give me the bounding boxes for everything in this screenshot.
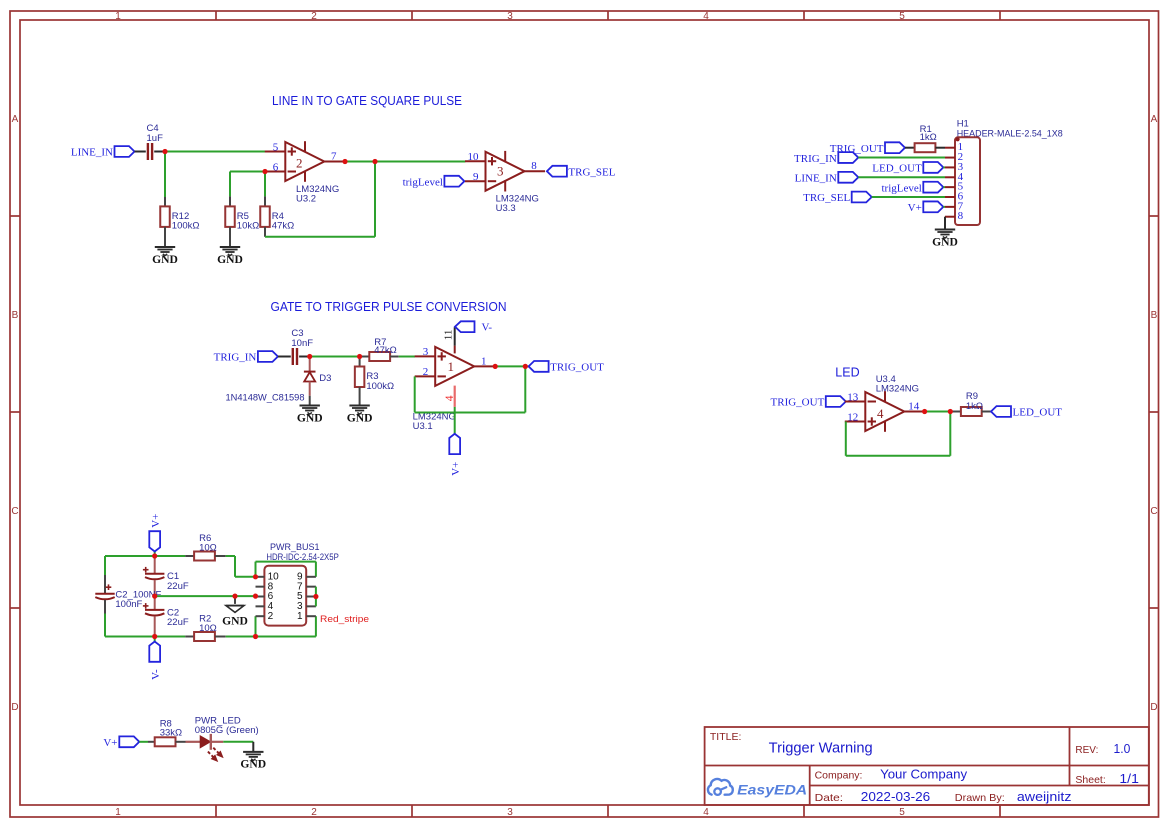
svg-text:V-: V- xyxy=(482,321,493,333)
svg-text:12: 12 xyxy=(847,411,858,423)
svg-text:V+: V+ xyxy=(450,462,462,476)
svg-text:D: D xyxy=(1150,702,1157,713)
svg-text:5: 5 xyxy=(899,11,905,22)
svg-text:2: 2 xyxy=(423,366,429,378)
svg-text:5: 5 xyxy=(899,807,905,818)
svg-text:1: 1 xyxy=(115,11,121,22)
svg-text:EasyEDA: EasyEDA xyxy=(737,781,807,797)
svg-text:4: 4 xyxy=(877,406,884,421)
svg-text:GATE TO TRIGGER PULSE CONVERSI: GATE TO TRIGGER PULSE CONVERSION xyxy=(271,300,507,314)
svg-text:TRIG_OUT: TRIG_OUT xyxy=(771,397,825,409)
svg-text:Company:: Company: xyxy=(815,769,863,781)
svg-text:D: D xyxy=(11,702,18,713)
svg-text:2: 2 xyxy=(311,11,317,22)
svg-text:4: 4 xyxy=(703,807,709,818)
svg-text:1: 1 xyxy=(448,359,455,374)
svg-text:10: 10 xyxy=(468,151,480,163)
svg-text:GND: GND xyxy=(217,253,243,266)
svg-text:33kΩ: 33kΩ xyxy=(160,728,182,739)
svg-text:1uF: 1uF xyxy=(147,133,164,144)
svg-text:B: B xyxy=(1151,310,1158,321)
svg-text:B: B xyxy=(12,310,19,321)
svg-text:Red_stripe: Red_stripe xyxy=(320,614,369,625)
svg-text:LM324NG: LM324NG xyxy=(876,384,919,395)
svg-text:LINE_IN: LINE_IN xyxy=(71,147,113,159)
svg-text:9: 9 xyxy=(473,171,479,183)
svg-text:GND: GND xyxy=(932,235,958,248)
svg-text:47kΩ: 47kΩ xyxy=(272,221,294,232)
svg-text:Trigger Warning: Trigger Warning xyxy=(769,740,873,756)
svg-text:100kΩ: 100kΩ xyxy=(172,221,200,232)
svg-text:10Ω: 10Ω xyxy=(199,542,217,553)
svg-text:1/1: 1/1 xyxy=(1119,772,1139,786)
svg-text:Drawn By:: Drawn By: xyxy=(955,792,1005,804)
svg-text:aweijnitz: aweijnitz xyxy=(1017,790,1072,804)
svg-text:U3.1: U3.1 xyxy=(413,421,433,432)
svg-text:4: 4 xyxy=(703,11,709,22)
svg-text:13: 13 xyxy=(847,391,859,403)
svg-text:LINE_IN: LINE_IN xyxy=(795,172,837,184)
svg-text:10nF: 10nF xyxy=(291,338,313,349)
svg-text:Sheet:: Sheet: xyxy=(1075,774,1105,786)
svg-text:1: 1 xyxy=(297,611,303,622)
svg-text:LED: LED xyxy=(835,366,859,380)
svg-text:Date:: Date: xyxy=(815,792,844,804)
svg-text:GND: GND xyxy=(297,411,323,424)
svg-text:Your Company: Your Company xyxy=(880,767,968,781)
svg-text:C: C xyxy=(11,506,18,517)
svg-text:HDR-IDC-2.54-2X5P: HDR-IDC-2.54-2X5P xyxy=(266,552,338,563)
svg-text:1N4148W_C81598: 1N4148W_C81598 xyxy=(226,392,305,403)
svg-text:1: 1 xyxy=(481,355,487,367)
svg-text:2022-03-26: 2022-03-26 xyxy=(861,790,930,804)
svg-text:2: 2 xyxy=(311,807,317,818)
svg-text:V+: V+ xyxy=(103,737,117,749)
svg-text:LED_OUT: LED_OUT xyxy=(872,163,922,175)
svg-text:22uF: 22uF xyxy=(167,581,189,592)
svg-text:1kΩ: 1kΩ xyxy=(920,132,937,143)
svg-text:U3.3: U3.3 xyxy=(496,203,516,214)
svg-text:100nF: 100nF xyxy=(115,599,142,610)
svg-text:11: 11 xyxy=(443,330,455,341)
svg-text:3: 3 xyxy=(423,346,429,358)
svg-text:47kΩ: 47kΩ xyxy=(374,345,396,356)
svg-text:1.0: 1.0 xyxy=(1114,742,1131,756)
svg-text:22uF: 22uF xyxy=(167,617,189,628)
svg-text:4: 4 xyxy=(444,395,456,401)
svg-text:100kΩ: 100kΩ xyxy=(366,381,394,392)
svg-text:V+: V+ xyxy=(150,514,162,528)
svg-text:2: 2 xyxy=(296,156,303,171)
svg-text:A: A xyxy=(1151,114,1158,125)
svg-text:3: 3 xyxy=(507,807,513,818)
svg-text:LINE IN TO GATE SQUARE PULSE: LINE IN TO GATE SQUARE PULSE xyxy=(272,94,462,108)
svg-text:C: C xyxy=(1150,506,1157,517)
svg-text:TRIG_OUT: TRIG_OUT xyxy=(550,362,604,374)
svg-text:REV:: REV: xyxy=(1075,744,1098,756)
svg-text:7: 7 xyxy=(331,151,337,163)
svg-text:LED_OUT: LED_OUT xyxy=(1013,407,1063,419)
svg-text:TRG_SEL: TRG_SEL xyxy=(803,192,850,204)
svg-text:trigLevel: trigLevel xyxy=(881,182,921,194)
svg-text:10Ω: 10Ω xyxy=(199,623,217,634)
svg-text:0805G (Green): 0805G (Green) xyxy=(195,725,259,736)
svg-text:GND: GND xyxy=(240,758,266,771)
svg-text:TITLE:: TITLE: xyxy=(710,731,742,743)
svg-text:A: A xyxy=(12,114,19,125)
svg-text:14: 14 xyxy=(908,401,920,413)
svg-text:V+: V+ xyxy=(908,202,922,214)
svg-text:GND: GND xyxy=(222,615,248,628)
svg-text:1: 1 xyxy=(115,807,121,818)
svg-text:1kΩ: 1kΩ xyxy=(966,401,983,412)
svg-text:8: 8 xyxy=(958,210,964,222)
svg-text:GND: GND xyxy=(152,253,178,266)
svg-text:6: 6 xyxy=(273,161,279,173)
svg-text:U3.2: U3.2 xyxy=(296,193,316,204)
svg-text:D3: D3 xyxy=(319,373,331,384)
svg-text:3: 3 xyxy=(497,164,504,179)
svg-text:3: 3 xyxy=(507,11,513,22)
svg-text:TRG_SEL: TRG_SEL xyxy=(568,166,615,178)
svg-text:10kΩ: 10kΩ xyxy=(237,221,259,232)
svg-text:5: 5 xyxy=(273,141,279,153)
svg-text:TRIG_IN: TRIG_IN xyxy=(794,153,837,165)
svg-text:GND: GND xyxy=(347,411,373,424)
svg-text:trigLevel: trigLevel xyxy=(403,176,443,188)
svg-text:2: 2 xyxy=(268,611,274,622)
svg-text:8: 8 xyxy=(531,160,537,172)
svg-text:TRIG_IN: TRIG_IN xyxy=(214,352,257,364)
svg-text:V-: V- xyxy=(150,669,162,680)
